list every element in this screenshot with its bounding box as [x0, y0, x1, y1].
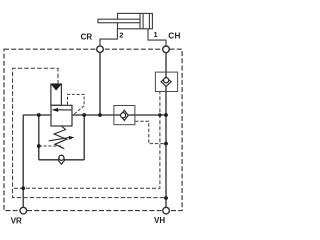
svg-text:1: 1: [154, 30, 158, 39]
svg-text:CR: CR: [81, 32, 93, 41]
svg-text:VR: VR: [11, 216, 22, 225]
svg-text:VH: VH: [154, 216, 165, 225]
svg-text:CH: CH: [168, 32, 181, 41]
svg-text:2: 2: [119, 31, 123, 40]
